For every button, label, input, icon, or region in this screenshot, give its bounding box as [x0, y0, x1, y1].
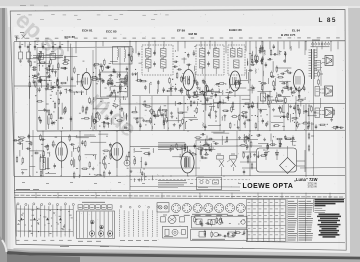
- footer date text: [16, 189, 39, 191]
- right column wires: [305, 41, 321, 176]
- sketch box A: [192, 216, 248, 228]
- output transformer 2: [315, 87, 320, 97]
- speaker connect wires: [320, 63, 323, 115]
- IF can 1: [142, 45, 173, 75]
- IF interstage 1: [131, 48, 143, 96]
- dial drum 3: [107, 231, 112, 236]
- page top tint: [7, 6, 348, 27]
- table rule 2: [14, 198, 345, 199]
- right mid parts: [307, 105, 344, 130]
- right resistor chain: [308, 70, 323, 151]
- footer specks: [60, 246, 149, 248]
- V7 electrodes: [184, 146, 188, 176]
- note text 2: [158, 181, 187, 188]
- tube label EM 80: [189, 32, 198, 36]
- vertical rail x130: [129, 41, 131, 190]
- input cap row: [19, 44, 63, 49]
- tube label ECC 85: [106, 30, 117, 34]
- AM verticals: [43, 131, 117, 176]
- left vertical rail: [14, 42, 33, 176]
- alignment table grid: [247, 199, 286, 241]
- model Luna 72W: [294, 177, 318, 182]
- sketch A items: [196, 219, 245, 225]
- PSU wires: [242, 146, 305, 172]
- droppers: [243, 156, 253, 174]
- tuner enclosure: [37, 47, 129, 131]
- bus y146: [130, 145, 262, 147]
- mixer column parts: [27, 51, 52, 99]
- watermark: [11, 6, 142, 141]
- EM80 top wires: [170, 146, 206, 152]
- station columns ticks: [120, 206, 159, 209]
- feedback parts: [241, 99, 301, 129]
- voltage table entries: [17, 208, 72, 234]
- dial scale verticals: [80, 212, 113, 238]
- V6 electrodes: [114, 148, 118, 168]
- table bottom rule right: [246, 242, 345, 243]
- tube V6 EBF89: [111, 143, 123, 161]
- parts list verticals: [287, 199, 314, 241]
- FM osc box parts: [102, 73, 127, 96]
- header verticals: [36, 193, 330, 199]
- tone control parts: [202, 99, 252, 129]
- det out parts: [266, 86, 307, 104]
- tube label B 250 C75: [281, 33, 296, 37]
- lower horizontals: [130, 162, 345, 187]
- parts dark block 1: [315, 200, 345, 206]
- IF interstage 2: [173, 46, 196, 100]
- IF can 2 cathode parts: [196, 79, 225, 96]
- sketch captions: [192, 214, 228, 239]
- IF can 2: [196, 45, 224, 75]
- pilot lamp La1: [159, 206, 163, 210]
- parts col 2: [299, 201, 309, 240]
- tuner long verticals: [71, 44, 94, 131]
- voltage selector: [311, 40, 330, 47]
- dial drum 1: [89, 231, 94, 236]
- dial scale caption: [78, 240, 101, 242]
- tube label ECH 81: [82, 29, 93, 33]
- socket captions: [173, 214, 244, 216]
- V3 electrodes: [232, 77, 236, 97]
- mains transformer: [309, 49, 318, 79]
- IF amp lower parts: [68, 134, 112, 179]
- chassis detail box: [163, 226, 188, 238]
- electrolytic C100: [263, 150, 268, 161]
- dial bottom labels: [16, 239, 72, 241]
- top margin text row 2: [40, 19, 155, 21]
- can internal wires: [148, 47, 240, 74]
- alignment entries: [248, 203, 284, 242]
- V2 electrodes: [186, 64, 190, 98]
- top HT bus: [14, 40, 345, 43]
- tube V1 ECC85: [82, 72, 91, 89]
- V1 electrodes: [84, 68, 87, 95]
- output transformer 3: [315, 108, 320, 118]
- tuning gang view: [161, 215, 185, 224]
- bottom bus y176: [14, 176, 345, 177]
- parts light rows mid: [315, 208, 326, 212]
- dial cord top circles: [17, 203, 74, 206]
- heater dashed wire: [130, 179, 250, 181]
- pushbutton caption: [82, 201, 105, 203]
- top edge shading: [0, 0, 360, 8]
- FM can coil A: [118, 47, 119, 61]
- mains switch: [217, 154, 237, 176]
- sketch box A parts: [194, 216, 245, 227]
- loudspeaker LS1: [322, 56, 333, 66]
- PSU top wire: [196, 140, 258, 176]
- EABC80 surround: [225, 79, 248, 99]
- parts col 3: [307, 201, 314, 240]
- tuner RF parts: [37, 56, 84, 96]
- heater wiring specks: [22, 183, 241, 184]
- model 3752W: [308, 181, 318, 185]
- bottom return wire: [14, 189, 240, 192]
- sheet number L 85: [319, 17, 337, 24]
- bottom-left corner shadow: [0, 236, 7, 262]
- svg-text:~: ~: [285, 164, 287, 168]
- output transformer 1: [316, 61, 321, 71]
- bridge rectifier: [280, 158, 296, 174]
- tube V2 EF89: [183, 70, 194, 91]
- dial station text columns: [120, 210, 158, 238]
- dial pointer marks: [90, 220, 103, 229]
- sketch box B: [191, 230, 248, 241]
- page right tint: [336, 6, 350, 253]
- phones jack: [124, 160, 130, 166]
- PSU box: [257, 148, 297, 172]
- tuner verticals: [46, 48, 120, 130]
- tube socket views: [171, 203, 245, 212]
- tube label EL 84: [292, 29, 300, 33]
- dial cord horizontals: [17, 209, 74, 232]
- loudspeaker LS2: [322, 86, 333, 96]
- svg-text:EABC 80: EABC 80: [229, 28, 242, 32]
- tube V5 ECH81: [56, 142, 68, 161]
- dial scale bottom labels: [120, 240, 157, 242]
- antenna symbol: [15, 36, 19, 41]
- top bus drops: [20, 41, 338, 55]
- mid verticals: [140, 96, 296, 131]
- V4 electrodes: [296, 76, 300, 98]
- vertical rail x250: [237, 41, 250, 176]
- IF can 2 coils: [200, 49, 220, 69]
- ratio detector can: [228, 45, 245, 75]
- pilot lamp La2: [164, 206, 168, 210]
- tube V4 EL84: [293, 70, 304, 91]
- parts col 1: [288, 201, 297, 240]
- svg-text:LOEWE OPTA: LOEWE OPTA: [243, 183, 294, 190]
- parts dark block 2: [317, 214, 341, 237]
- tube label EABC 80: [229, 28, 242, 32]
- bus y95: [132, 94, 250, 96]
- converter parts: [13, 134, 57, 178]
- svg-text:ECH 81: ECH 81: [82, 29, 93, 33]
- tube V3 EABC80: [230, 71, 240, 91]
- tube V7 EM80: [181, 152, 194, 173]
- IF out parts: [178, 87, 228, 105]
- svg-text:3753 W: 3753 W: [308, 185, 318, 189]
- svg-text:„Luna“ 72W: „Luna“ 72W: [294, 177, 318, 182]
- dial pointers: [20, 218, 62, 221]
- ratio det coils: [231, 49, 243, 69]
- input coils: [19, 50, 31, 63]
- pushbutton row: [78, 205, 112, 209]
- fuse box: [197, 176, 222, 190]
- AM bus y136: [27, 135, 96, 137]
- model 3753W: [308, 185, 318, 189]
- left edge shading: [0, 0, 14, 262]
- mid bus y131: [37, 129, 345, 132]
- pilot lamp box: [157, 203, 169, 212]
- svg-text:EM 80: EM 80: [189, 32, 198, 36]
- dial lamp feed parts: [200, 146, 213, 159]
- vertical rail x205: [204, 41, 206, 104]
- sketch B items: [199, 232, 234, 238]
- dial scale box: [77, 211, 115, 239]
- mains entry parts: [197, 143, 216, 152]
- table header specks: [15, 195, 343, 197]
- dial cord verticals: [17, 205, 74, 238]
- AF det parts: [126, 148, 154, 182]
- EM80 surround: [170, 143, 210, 159]
- dial cord x-marks: [21, 212, 65, 232]
- loudspeaker LS3: [322, 108, 333, 118]
- svg-text:EF 89: EF 89: [177, 29, 185, 33]
- FM IF can box: [113, 47, 133, 65]
- svg-text:L 85: L 85: [319, 17, 337, 24]
- dial drum 2: [98, 231, 103, 236]
- dial lamp feed network: [194, 132, 250, 146]
- top margin text row: [17, 14, 169, 17]
- top designation labels: [16, 37, 340, 39]
- bus y104: [120, 102, 345, 105]
- svg-text:ECC 85: ECC 85: [106, 30, 117, 34]
- ferrite rod antenna: [33, 52, 63, 60]
- IF can 1 cathode parts: [140, 77, 174, 96]
- tone network lower: [239, 134, 296, 159]
- bus junction dots: [29, 41, 331, 177]
- vertical rail x306: [305, 104, 307, 176]
- EM80 shading: [185, 157, 191, 168]
- sketch box B parts: [204, 230, 245, 238]
- LOEWE OPTA logo: [243, 183, 294, 190]
- FM can coil B: [125, 47, 131, 63]
- volume pot: [261, 41, 271, 104]
- table rule 1: [14, 191, 345, 194]
- V5 electrodes: [59, 137, 63, 168]
- tube label ECC 85: [65, 35, 76, 39]
- oscillator coil: [40, 154, 49, 175]
- EL84 anode parts: [291, 101, 312, 130]
- electrolytic C101: [275, 150, 279, 161]
- band switch S1: [20, 33, 26, 40]
- svg-text:B 250 C75: B 250 C75: [281, 33, 296, 37]
- note text 1: [158, 143, 186, 150]
- tube label EF 89: [177, 29, 185, 33]
- tuner osc parts: [91, 59, 128, 100]
- heater bus left: [14, 85, 76, 87]
- FM osc box: [101, 72, 128, 97]
- bottom shadow: [0, 248, 360, 262]
- pencil marks above frame: [20, 4, 48, 7]
- IF can 1 coils: [146, 47, 167, 72]
- detector parts: [246, 44, 293, 100]
- tuner lower parts: [36, 97, 127, 129]
- dial cord dots: [18, 224, 65, 227]
- AF preamp parts: [131, 100, 198, 129]
